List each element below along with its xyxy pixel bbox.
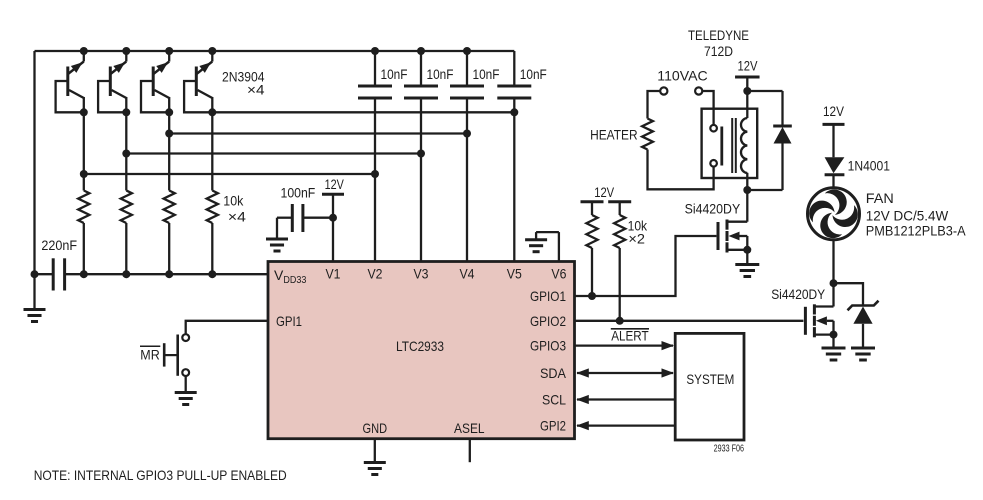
block SYSTEM xyxy=(675,333,744,440)
transistor Q4 2N3904 xyxy=(184,47,216,112)
wire C2 column to V3 pin xyxy=(420,98,422,262)
wire sense line Q1 to V2 column xyxy=(84,173,375,175)
wire flyback top xyxy=(747,90,782,92)
svg-text:12V: 12V xyxy=(738,58,759,74)
wire SDA bidirectional xyxy=(576,368,674,377)
supply 12V pullups xyxy=(581,184,632,202)
capacitor C1 10nF xyxy=(358,51,408,98)
label V3 pin xyxy=(414,266,429,282)
node coil bottom xyxy=(743,186,751,194)
IC U1 LTC2933 body xyxy=(268,262,575,439)
label MR xyxy=(140,346,160,362)
wire C3 column to V4 pin xyxy=(466,98,468,262)
label VDD33 pin xyxy=(274,267,307,286)
svg-text:Si4420DY: Si4420DY xyxy=(771,286,826,302)
wire VDD33 rail xyxy=(84,273,268,275)
label SDA pin xyxy=(540,365,567,381)
svg-text:SYSTEM: SYSTEM xyxy=(686,371,734,387)
ground zener xyxy=(851,348,875,360)
svg-text:10nF: 10nF xyxy=(473,66,500,82)
wire sense line Q3 to V4 column xyxy=(169,132,467,134)
inductor relay coil xyxy=(741,118,747,173)
label 10k left xyxy=(223,193,244,209)
wire SCL from SYSTEM xyxy=(576,395,675,404)
terminal 110VAC left xyxy=(660,87,667,94)
svg-text:12V: 12V xyxy=(325,176,345,192)
node line2 at V4 column xyxy=(463,130,471,138)
resistor R2 10k xyxy=(121,191,132,224)
node line1 at V5 column xyxy=(510,108,518,116)
diode D3 zener xyxy=(848,301,879,348)
svg-text:GND: GND xyxy=(363,420,388,436)
wire Q3 node to resistor xyxy=(168,112,170,190)
node line3 at V3 column xyxy=(417,150,425,158)
capacitor 220nF xyxy=(35,237,84,290)
transistor Q5 Si4420DY xyxy=(718,220,751,254)
svg-text:MR: MR xyxy=(140,347,160,363)
diode D1 flyback xyxy=(773,91,792,190)
label V6 pin xyxy=(551,266,566,282)
svg-text:ALERT: ALERT xyxy=(611,328,649,344)
label HEATER xyxy=(590,127,638,143)
label Si4420DY Q5 xyxy=(685,201,741,217)
capacitor C5 100nF xyxy=(281,185,334,232)
terminal 110VAC right xyxy=(695,87,702,94)
label fan specs xyxy=(866,207,966,238)
node Q1 line4 tap xyxy=(80,170,88,178)
node 100nF junction xyxy=(329,214,337,222)
wire node to zener xyxy=(834,283,864,305)
label GPI1 pin xyxy=(276,313,302,329)
wire sense line Q2 to V3 column xyxy=(126,152,421,154)
svg-text:HEATER: HEATER xyxy=(590,127,638,143)
node R5 on GPIO1 xyxy=(588,292,596,300)
svg-text:NOTE: INTERNAL GPIO3 PULL-UP E: NOTE: INTERNAL GPIO3 PULL-UP ENABLED xyxy=(34,467,287,483)
fan M1 xyxy=(803,184,863,244)
svg-text:×4: ×4 xyxy=(247,82,265,98)
svg-text:V4: V4 xyxy=(460,266,475,282)
label V2 pin xyxy=(368,266,383,282)
svg-text:712D: 712D xyxy=(704,43,733,59)
wire flyback bottom xyxy=(747,189,782,191)
label 2N3904 xyxy=(222,69,265,85)
label ALERT xyxy=(611,328,649,344)
label GPI2 pin xyxy=(540,418,566,434)
node R6 on GPIO2 xyxy=(616,317,624,325)
label V5 pin xyxy=(507,266,522,282)
node line4 at V2 column xyxy=(371,170,379,178)
resistor R4 10k xyxy=(207,191,218,224)
ground left rail xyxy=(24,274,46,321)
ground GND pin xyxy=(364,463,386,475)
resistor R3 10k xyxy=(164,191,175,224)
ground 100nF xyxy=(266,218,292,251)
resistor R1 10k xyxy=(78,191,89,224)
node C1 top rail xyxy=(371,47,379,55)
node fan bottom xyxy=(830,279,838,287)
svg-text:10nF: 10nF xyxy=(520,66,547,82)
wire R2 to VDD33 rail xyxy=(125,223,127,274)
supply 12V relay xyxy=(735,58,760,77)
svg-text:GPIO1: GPIO1 xyxy=(530,288,566,304)
wire 12V to V1 pin xyxy=(332,194,334,261)
supply 12V fan xyxy=(823,103,845,124)
wire C1 column to V2 pin xyxy=(374,98,376,262)
ground Q6 source xyxy=(822,335,846,360)
node R1 VDD33 rail xyxy=(80,270,88,278)
label ASEL pin xyxy=(454,420,485,436)
svg-text:100nF: 100nF xyxy=(281,185,316,201)
transistor Q3 2N3904 xyxy=(141,47,173,112)
wire MR to ground xyxy=(185,376,187,393)
svg-text:×2: ×2 xyxy=(628,231,645,247)
label GND pin xyxy=(363,420,388,436)
label TELEDYNE 712D xyxy=(688,27,749,59)
resistor R5 10k pullup GPIO1 xyxy=(586,202,597,296)
diode D2 1N4001 xyxy=(825,157,891,174)
svg-text:GPIO3: GPIO3 xyxy=(530,338,566,354)
wire GND pin xyxy=(374,439,376,463)
node coil top xyxy=(743,87,751,95)
transistor Q6 Si4420DY xyxy=(805,304,837,338)
node R4 VDD33 rail xyxy=(208,270,216,278)
wire R1 to VDD33 rail xyxy=(83,223,85,274)
wire GPI1 xyxy=(186,321,268,334)
node R3 VDD33 rail xyxy=(165,270,173,278)
resistor R6 10k pullup GPIO2 xyxy=(614,202,625,321)
note text xyxy=(34,467,287,483)
svg-text:V6: V6 xyxy=(551,266,566,282)
label 2933 F06 xyxy=(714,444,745,455)
wire ASEL stub xyxy=(469,439,471,463)
wire top GND rail xyxy=(35,50,515,52)
svg-text:×4: ×4 xyxy=(228,209,246,225)
resistor R7 heater xyxy=(642,119,653,150)
wire GPIO2 to gate xyxy=(575,320,804,322)
transistor Q1 2N3904 xyxy=(56,47,88,112)
node C3 top rail xyxy=(463,47,471,55)
wire GPI2 from SYSTEM xyxy=(576,421,675,430)
label 110VAC xyxy=(657,68,707,84)
svg-text:220nF: 220nF xyxy=(41,237,77,253)
wire heater to contact xyxy=(648,150,714,190)
wire Q6 drain up xyxy=(832,283,834,306)
wire 12V to coil xyxy=(746,77,748,118)
svg-text:SDA: SDA xyxy=(540,365,567,381)
relay core xyxy=(732,118,736,173)
svg-text:1N4001: 1N4001 xyxy=(848,158,891,174)
svg-text:12V: 12V xyxy=(823,103,845,119)
capacitor C4 10nF xyxy=(497,51,547,98)
node C2 top rail xyxy=(417,47,425,55)
switch MR pushbutton xyxy=(164,334,189,376)
svg-text:V2: V2 xyxy=(368,266,383,282)
label V4 pin xyxy=(460,266,475,282)
svg-text:2933 F06: 2933 F06 xyxy=(714,444,745,455)
capacitor C3 10nF xyxy=(450,51,500,98)
svg-text:Si4420DY: Si4420DY xyxy=(685,201,741,217)
wire R3 to VDD33 rail xyxy=(168,223,170,274)
node Q3 line2 tap xyxy=(165,130,173,138)
svg-text:ASEL: ASEL xyxy=(454,420,485,436)
node Q1 collector-base xyxy=(80,108,88,116)
supply 12V at V1 xyxy=(322,176,344,194)
ground MR switch xyxy=(175,393,197,405)
svg-text:GPI1: GPI1 xyxy=(276,313,302,329)
wire GPIO3 to SYSTEM xyxy=(575,341,675,350)
wire sense line Q4 to V5 column xyxy=(212,111,514,113)
label GPIO1 pin xyxy=(530,288,566,304)
label FAN xyxy=(866,190,894,206)
wire Q1 node to resistor xyxy=(83,112,85,190)
svg-text:10nF: 10nF xyxy=(381,66,408,82)
relay contact top xyxy=(710,125,717,132)
label Si4420DY Q6 xyxy=(771,286,826,302)
label GPIO3 pin xyxy=(530,338,566,354)
label x4 transistors xyxy=(247,82,265,98)
transistor Q2 2N3904 xyxy=(98,47,130,112)
label x4 resistors xyxy=(228,209,246,225)
wire R4 to VDD33 rail xyxy=(211,223,213,274)
wire GPIO1 to gate xyxy=(575,236,717,296)
svg-text:PMB1212PLB3-A: PMB1212PLB3-A xyxy=(866,222,966,238)
node Q4 collector-base xyxy=(208,108,216,116)
svg-text:V3: V3 xyxy=(414,266,429,282)
svg-text:V5: V5 xyxy=(507,266,522,282)
label SCL pin xyxy=(542,392,566,408)
wire 110VAC left to heater xyxy=(648,91,661,119)
svg-text:FAN: FAN xyxy=(866,190,894,206)
relay K1 Teledyne 712D box xyxy=(702,109,758,178)
svg-text:GPIO2: GPIO2 xyxy=(530,313,566,329)
wire Q2 node to resistor xyxy=(125,112,127,190)
ground Q5 source xyxy=(735,250,759,277)
node left rail junction xyxy=(31,270,39,278)
svg-text:10nF: 10nF xyxy=(427,66,454,82)
wire left border xyxy=(33,51,35,274)
svg-text:LTC2933: LTC2933 xyxy=(396,338,444,354)
svg-text:110VAC: 110VAC xyxy=(657,68,707,84)
svg-text:GPI2: GPI2 xyxy=(540,418,566,434)
node Q3 collector-base xyxy=(165,108,173,116)
label V1 pin xyxy=(326,266,341,282)
svg-text:10k: 10k xyxy=(223,193,244,209)
wire 12V to diode xyxy=(832,124,834,157)
wire diode to fan xyxy=(832,175,834,189)
relay contact bottom xyxy=(710,160,717,167)
svg-text:12V DC/5.4W: 12V DC/5.4W xyxy=(866,207,949,223)
svg-text:12V: 12V xyxy=(594,184,615,200)
node R2 VDD33 rail xyxy=(122,270,130,278)
wire Q5 drain up xyxy=(746,190,748,222)
wire C4 column to V5 pin xyxy=(513,98,515,262)
node Q2 collector-base xyxy=(122,108,130,116)
ground V6 pin xyxy=(525,232,559,261)
wire Q4 node to resistor xyxy=(211,112,213,190)
label 10k x2 xyxy=(628,218,648,247)
node Q2 line3 tap xyxy=(122,150,130,158)
wire 110VAC right to contact xyxy=(702,91,713,125)
svg-text:TELEDYNE: TELEDYNE xyxy=(688,27,749,43)
wire coil bottom xyxy=(746,173,748,190)
wire fan to node xyxy=(832,240,834,283)
relay armature xyxy=(720,127,723,166)
svg-text:V1: V1 xyxy=(326,266,341,282)
svg-text:SCL: SCL xyxy=(542,392,566,408)
label GPIO2 pin xyxy=(530,313,566,329)
label LTC2933 xyxy=(396,338,444,354)
capacitor C2 10nF xyxy=(404,51,454,98)
